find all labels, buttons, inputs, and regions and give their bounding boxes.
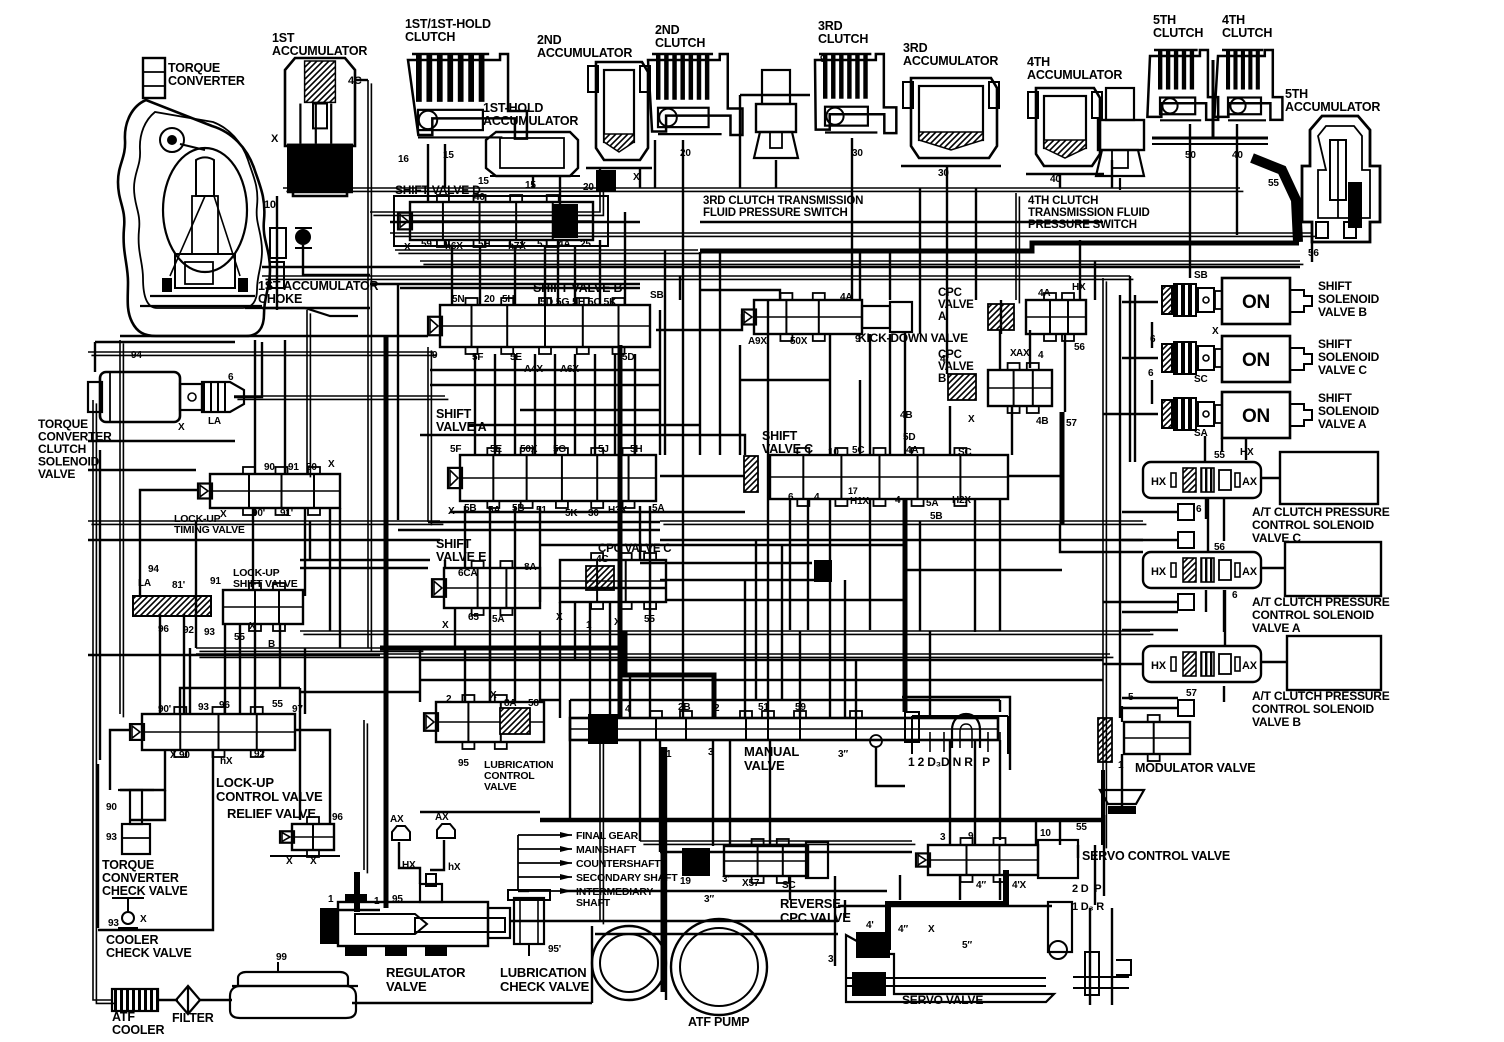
wire (234, 396, 448, 399)
svg-text:ON: ON (1242, 350, 1270, 371)
svg-text:X: X (968, 414, 975, 425)
wire (1262, 477, 1280, 479)
wire (419, 648, 421, 702)
wire (1262, 567, 1285, 569)
shift solenoid valve A (1162, 392, 1312, 438)
wire (234, 342, 262, 397)
labels cpcC (556, 554, 655, 631)
wire (640, 841, 915, 844)
labels valve D bottom (404, 239, 591, 253)
svg-text:X: X (140, 914, 147, 925)
wire (1059, 820, 1061, 845)
labels lubcv (446, 690, 539, 769)
svg-text:LUBRICATION: LUBRICATION (500, 965, 586, 980)
svg-text:MAINSHAFT: MAINSHAFT (576, 844, 637, 856)
svg-text:CHECK VALVE: CHECK VALVE (106, 946, 192, 960)
wire (200, 999, 232, 1001)
label 1ST ACCUMULATOR CHOKE (258, 279, 379, 306)
wire (660, 579, 814, 581)
wire (140, 490, 198, 596)
svg-text:4B: 4B (1036, 416, 1048, 427)
svg-text:SHIFT: SHIFT (1318, 391, 1353, 405)
svg-text:VALVE: VALVE (938, 299, 974, 311)
label A/T A (1252, 595, 1390, 635)
svg-text:5″: 5″ (962, 940, 972, 951)
svg-text:SOLENOID: SOLENOID (1318, 404, 1380, 418)
ATF cooler (112, 989, 158, 1011)
wire (876, 747, 905, 786)
svg-text:57: 57 (1066, 418, 1077, 429)
svg-text:3″: 3″ (838, 749, 848, 760)
wire (1103, 413, 1158, 415)
wire (1205, 590, 1207, 612)
svg-text:VALVE C: VALVE C (762, 442, 813, 456)
svg-text:92: 92 (350, 945, 361, 956)
svg-text:CHECK VALVE: CHECK VALVE (500, 979, 590, 994)
wire (489, 648, 491, 702)
svg-text:SHIFT: SHIFT (1318, 337, 1353, 351)
wire thick y820 (540, 818, 1105, 823)
label X (271, 133, 279, 145)
wire (451, 247, 453, 305)
ATF pump (592, 919, 767, 1015)
label 56a (1308, 248, 1319, 259)
wire (398, 529, 660, 531)
label 30a (852, 148, 863, 159)
wire (949, 406, 951, 455)
svg-text:VALVE C: VALVE C (1318, 363, 1367, 377)
wire (1122, 539, 1178, 541)
wire (514, 247, 516, 305)
wire (304, 648, 306, 714)
wire frame valve D (394, 196, 608, 246)
wire (1204, 436, 1206, 462)
label MODULATOR VALVE (1135, 761, 1255, 775)
wire (1151, 380, 1153, 404)
wire (88, 440, 235, 442)
label 2D P (1072, 883, 1101, 895)
label 1D3 R (1072, 901, 1104, 913)
svg-text:CONTROL SOLENOID: CONTROL SOLENOID (1252, 702, 1374, 716)
svg-text:40: 40 (474, 192, 485, 203)
shift valve C (744, 448, 1008, 506)
label SA2 (1194, 428, 1208, 439)
labels rcv (680, 874, 796, 905)
wire (299, 688, 301, 820)
svg-text:LOCK-UP: LOCK-UP (216, 775, 274, 790)
wire (262, 307, 370, 309)
label REGULATOR VALVE (386, 965, 466, 994)
svg-text:56: 56 (1074, 342, 1085, 353)
wire (656, 314, 742, 330)
svg-text:TRANSMISSION FLUID: TRANSMISSION FLUID (1028, 207, 1150, 219)
svg-text:X: X (178, 422, 185, 433)
wire (594, 354, 596, 455)
wire (430, 840, 444, 870)
svg-text:94: 94 (148, 564, 159, 575)
label X sb (1212, 326, 1219, 337)
wire (1060, 524, 1143, 552)
wire thick 905 (903, 500, 908, 712)
label 50 (1185, 150, 1196, 161)
wire thick regfeed (384, 335, 389, 908)
svg-text:25: 25 (580, 239, 591, 250)
wire (1121, 754, 1123, 806)
wire (639, 740, 641, 841)
label CPC VALVE B (938, 349, 974, 385)
wire (1035, 820, 1037, 845)
label FINAL GEAR (576, 830, 639, 842)
labels valve B top (452, 290, 664, 305)
wire (520, 409, 660, 411)
svg-text:LA: LA (208, 416, 221, 427)
wire (368, 80, 371, 651)
wire (639, 506, 641, 560)
svg-text:TORQUE: TORQUE (102, 858, 154, 872)
wire (189, 648, 191, 714)
label TC CLUTCH SOLENOID VALVE (38, 417, 112, 481)
wire (370, 188, 603, 215)
wire (99, 450, 101, 760)
svg-text:1: 1 (328, 894, 334, 905)
labels lutv bottom (220, 508, 293, 520)
wire (1103, 815, 1105, 896)
svg-text:CPC: CPC (938, 287, 962, 299)
wire (629, 675, 631, 718)
svg-text:VALVE B: VALVE B (1252, 715, 1301, 729)
wire (284, 340, 286, 474)
svg-text:57: 57 (1186, 688, 1197, 699)
svg-text:SHIFT: SHIFT (436, 407, 472, 421)
svg-text:4: 4 (814, 492, 820, 503)
wire (1205, 498, 1207, 519)
svg-text:HX: HX (1151, 660, 1167, 672)
label ATF COOLER (112, 1010, 164, 1037)
svg-text:91': 91' (280, 508, 293, 519)
wire (838, 905, 1052, 907)
servo control valve (916, 838, 1078, 882)
wire (1134, 295, 1136, 462)
svg-text:5F: 5F (450, 444, 461, 455)
svg-text:SC: SC (782, 880, 796, 891)
wire (660, 539, 1143, 541)
label SHIFT VALVE A (436, 407, 487, 434)
label SHIFT SOLENOID VALVE A (1318, 391, 1380, 431)
wire (444, 144, 446, 188)
wire (544, 247, 546, 305)
label 3RD ACCUMULATOR (903, 41, 998, 68)
shift valve E (432, 561, 540, 615)
wire (1111, 160, 1113, 188)
svg-text:VALVE: VALVE (484, 781, 517, 793)
labels manual top (625, 702, 806, 715)
wire (534, 354, 536, 455)
svg-text:2ND: 2ND (655, 23, 680, 37)
svg-text:COOLER: COOLER (112, 1023, 164, 1037)
black blob near valve E (814, 560, 832, 582)
wire (999, 740, 1001, 840)
wire (195, 521, 197, 648)
wire (540, 587, 666, 589)
svg-text:4TH: 4TH (1027, 55, 1050, 69)
svg-text:6: 6 (228, 372, 234, 383)
wire (659, 310, 661, 455)
svg-text:TIMING VALVE: TIMING VALVE (174, 524, 245, 536)
svg-text:5J: 5J (598, 444, 609, 455)
svg-text:4: 4 (1038, 350, 1044, 361)
shift valve B (428, 298, 650, 354)
wire (859, 250, 861, 300)
svg-text:55: 55 (1214, 450, 1225, 461)
label 5D 5G 5H 5C 5K (540, 296, 617, 308)
label 30b (938, 168, 949, 179)
wire (654, 140, 656, 188)
shaft pointer lines (518, 832, 572, 894)
svg-text:B: B (938, 373, 946, 385)
svg-text:ACCUMULATOR: ACCUMULATOR (537, 46, 632, 60)
wire (609, 602, 611, 718)
svg-text:CLUTCH: CLUTCH (405, 30, 455, 44)
lock-up control valve (130, 707, 295, 757)
svg-text:95: 95 (392, 894, 403, 905)
svg-text:FILTER: FILTER (172, 1011, 214, 1025)
labels row C top (1214, 447, 1254, 461)
label REVERSE CPC VALVE (780, 896, 851, 925)
svg-text:A/T CLUTCH PRESSURE: A/T CLUTCH PRESSURE (1252, 595, 1390, 609)
wire (254, 340, 256, 474)
wire (1122, 629, 1178, 631)
wire (679, 276, 681, 300)
wire (574, 602, 576, 660)
svg-text:4TH CLUTCH: 4TH CLUTCH (1028, 195, 1098, 207)
svg-text:AX: AX (1242, 660, 1258, 672)
label TORQUE CONVERTER (168, 61, 245, 88)
svg-text:96: 96 (332, 812, 343, 823)
svg-text:A: A (938, 311, 946, 323)
wire (180, 688, 300, 714)
wire (464, 648, 466, 702)
label 40b (1232, 150, 1243, 161)
svg-text:A/T CLUTCH PRESSURE: A/T CLUTCH PRESSURE (1252, 505, 1390, 519)
3rd accumulator (901, 78, 1001, 166)
svg-text:VALVE: VALVE (386, 979, 427, 994)
label SHIFT VALVE C (762, 429, 813, 456)
wire (949, 740, 951, 845)
svg-text:4': 4' (866, 920, 874, 931)
wire (1189, 124, 1191, 278)
2nd accumulator (586, 62, 652, 168)
svg-text:X: X (928, 924, 935, 935)
labels valve A bottom (448, 503, 664, 519)
relief valve (270, 817, 340, 857)
svg-text:MANUAL: MANUAL (744, 744, 799, 759)
svg-text:4TH: 4TH (1222, 13, 1245, 27)
label 1 mod (1118, 760, 1124, 771)
label RELIEF VALVE (227, 806, 316, 821)
svg-text:SB: SB (1194, 270, 1208, 281)
modulator funnel (1100, 790, 1144, 814)
orifice block 20 (596, 170, 616, 192)
svg-text:2: 2 (446, 694, 452, 705)
label 2ND CLUTCH (655, 23, 705, 50)
svg-text:93: 93 (108, 918, 119, 929)
svg-text:SB: SB (650, 290, 664, 301)
svg-text:20: 20 (680, 148, 691, 159)
wire (1223, 590, 1225, 632)
wire (649, 506, 651, 718)
wire (919, 188, 921, 300)
wire (196, 654, 1113, 657)
label SHIFT VALVE B (533, 281, 622, 295)
wire (640, 562, 812, 564)
wire (468, 424, 700, 426)
svg-text:CONVERTER: CONVERTER (102, 871, 179, 885)
svg-text:5A: 5A (926, 498, 938, 509)
3rd clutch pressure switch body (754, 70, 798, 158)
label SC2 (1194, 374, 1208, 385)
wire (1207, 498, 1209, 552)
label X 2nd (633, 172, 640, 183)
wire (93, 400, 115, 1003)
svg-text:ON: ON (1242, 406, 1270, 427)
svg-text:CLUTCH: CLUTCH (655, 36, 705, 50)
wire (300, 691, 420, 693)
labels sve (442, 562, 536, 631)
wire (755, 540, 757, 700)
svg-text:AX: AX (1242, 566, 1258, 578)
labels reg (328, 894, 403, 956)
label MAINSHAFT (576, 844, 637, 856)
label LOCK-UP TIMING VALVE (174, 513, 245, 536)
wire (902, 697, 1010, 770)
wire (1311, 236, 1313, 262)
wire (1122, 707, 1178, 709)
wire (158, 999, 178, 1001)
svg-text:SERVO VALVE: SERVO VALVE (902, 993, 983, 1007)
svg-text:10: 10 (1040, 828, 1051, 839)
wire (110, 730, 130, 790)
svg-text:A9X: A9X (748, 336, 767, 347)
wire (889, 334, 891, 455)
svg-text:90: 90 (264, 462, 275, 473)
wire (829, 500, 831, 718)
wire (554, 354, 556, 455)
svg-text:6: 6 (1148, 368, 1154, 379)
wire (1089, 908, 1091, 1005)
wire (539, 631, 541, 702)
a/t row B outbox (1287, 636, 1381, 690)
svg-text:SHIFT VALVE D: SHIFT VALVE D (395, 183, 481, 197)
svg-text:4″: 4″ (976, 880, 986, 891)
wire thick servo elbow (888, 870, 1006, 950)
svg-text:AX: AX (390, 814, 404, 825)
svg-text:51: 51 (536, 505, 547, 516)
svg-text:8A: 8A (524, 562, 536, 573)
label 1ST ACCUMULATOR (272, 31, 367, 58)
svg-text:5F: 5F (472, 352, 483, 363)
svg-text:hX: hX (448, 862, 461, 873)
wire (999, 878, 1001, 900)
labels lucv top (158, 699, 303, 715)
svg-text:VALVE A: VALVE A (1252, 621, 1301, 635)
labels tccv (106, 802, 117, 843)
wire (1059, 174, 1061, 188)
wire (769, 740, 771, 846)
wire (1079, 240, 1081, 300)
svg-text:ACCUMULATOR: ACCUMULATOR (483, 114, 578, 128)
wire (276, 196, 278, 310)
svg-text:AX: AX (435, 812, 449, 823)
1st accumulator (285, 58, 355, 196)
svg-text:COOLER: COOLER (106, 933, 158, 947)
svg-text:RELIEF VALVE: RELIEF VALVE (227, 806, 316, 821)
wire (999, 500, 1001, 631)
wire (159, 614, 161, 714)
label SHIFT SOLENOID VALVE C (1318, 337, 1380, 377)
wire (1111, 908, 1113, 1005)
label 40a (1050, 174, 1061, 185)
wire (479, 247, 481, 305)
label FILTER (172, 1011, 214, 1025)
svg-text:55: 55 (1076, 822, 1087, 833)
label COUNTERSHAFT (576, 858, 661, 870)
wire (1094, 845, 1096, 905)
svg-text:3: 3 (940, 832, 946, 843)
svg-text:9: 9 (820, 54, 826, 65)
wire (974, 500, 976, 632)
wire (514, 354, 516, 455)
svg-text:10: 10 (264, 199, 276, 211)
svg-text:ACCUMULATOR: ACCUMULATOR (1285, 100, 1380, 114)
a/t row A outbox (1285, 542, 1381, 596)
wire (428, 347, 431, 525)
svg-text:5A: 5A (492, 614, 504, 625)
label KICK-DOWN VALVE (858, 331, 968, 345)
label 4TH CLUTCH (1222, 13, 1272, 40)
wire (614, 354, 616, 455)
manual valve (570, 711, 998, 744)
svg-text:hX: hX (220, 756, 233, 767)
wire (427, 144, 429, 202)
svg-text:TORQUE: TORQUE (168, 61, 220, 75)
svg-text:HX: HX (1151, 476, 1167, 488)
svg-text:58: 58 (528, 698, 539, 709)
svg-text:H1X: H1X (850, 496, 869, 507)
wire (869, 500, 871, 630)
wire (789, 876, 791, 900)
svg-text:FLUID PRESSURE SWITCH: FLUID PRESSURE SWITCH (703, 207, 848, 219)
row A nubs (1178, 590, 1238, 610)
wire thick accum elbow (1252, 158, 1298, 242)
wire (859, 380, 861, 455)
wire (700, 290, 780, 300)
wire (120, 340, 123, 717)
svg-text:93: 93 (106, 832, 117, 843)
label 10 (264, 199, 276, 211)
wire (829, 334, 831, 455)
label 4C (348, 75, 362, 87)
svg-text:4: 4 (895, 495, 901, 506)
svg-text:VALVE A: VALVE A (436, 420, 487, 434)
label SB (1194, 270, 1208, 281)
label 12D3DNR P (908, 755, 990, 769)
2nd clutch (648, 54, 742, 135)
wire (807, 500, 809, 630)
wire thick 648 (380, 646, 620, 651)
label CPC VALVE A (938, 287, 974, 323)
labels lucv bottom (170, 749, 265, 767)
wire (1151, 322, 1153, 348)
